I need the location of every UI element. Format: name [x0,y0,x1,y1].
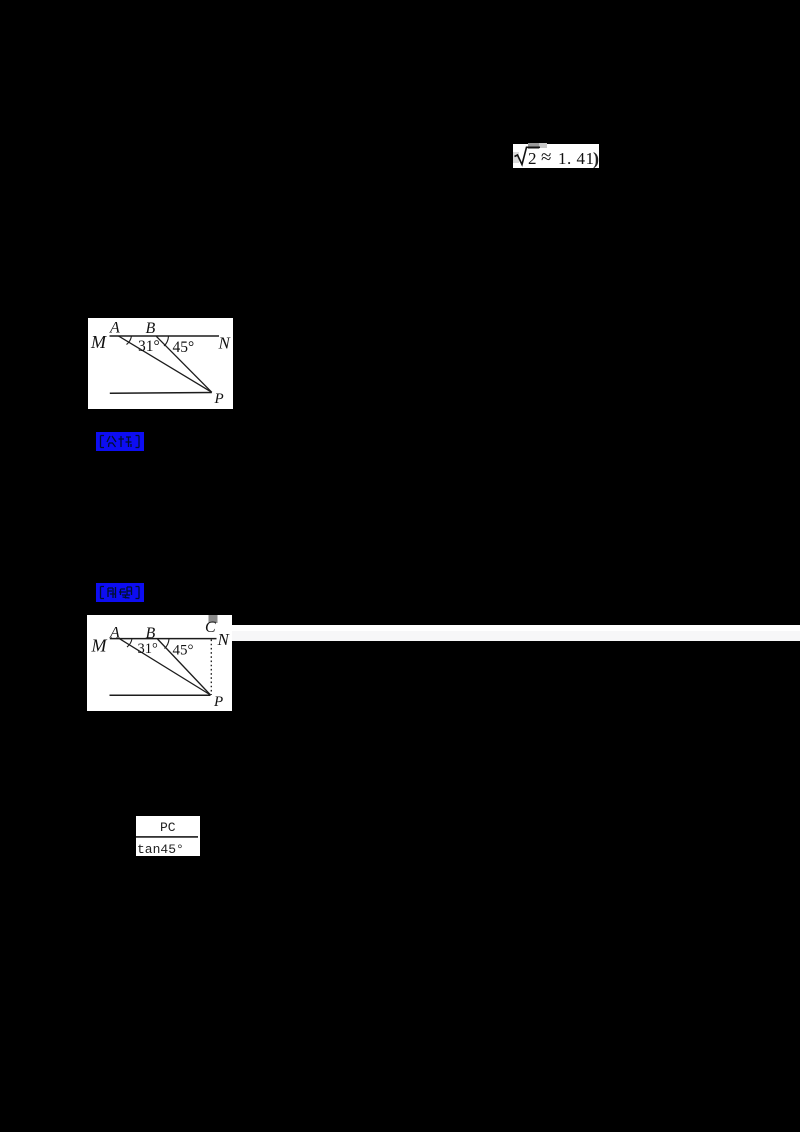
svg-text:M: M [91,636,108,656]
fraction PC / tan45deg [136,816,200,856]
svg-text:31°: 31° [138,641,159,657]
svg-text:2: 2 [528,149,537,168]
svg-text:M: M [90,332,107,352]
radical sign [515,147,541,164]
blue label chip 2 [96,583,144,602]
ray A to P [120,639,211,695]
diagram 2 box [87,615,232,711]
fraction bar [136,836,198,838]
arc at B [164,336,169,346]
blue label chip 1 [96,432,144,451]
svg-text:1. 41: 1. 41 [558,149,595,168]
line MN [110,335,220,337]
gray smudge on top edge of formula box [528,143,539,149]
svg-text:P: P [214,391,224,407]
svg-text:≈: ≈ [541,147,551,168]
ray B to P [158,639,211,695]
arc at B [165,639,170,649]
svg-text:45°: 45° [173,339,195,356]
svg-text:31°: 31° [138,338,160,355]
formula text [513,144,605,168]
svg-text:): ) [593,149,599,169]
svg-text:C: C [205,619,216,636]
svg-text:PC: PC [160,820,176,835]
svg-text:A: A [109,625,120,642]
gray smudge above C [209,614,218,623]
bottom line through P [110,694,211,696]
gray left-edge patch [513,152,519,163]
diagram 1 box [88,318,233,409]
bottom line through P [110,392,212,395]
svg-text:N: N [217,630,231,649]
svg-text:P: P [213,694,223,710]
dotted line C to P [210,640,212,696]
svg-text:B: B [146,625,156,642]
svg-text:A: A [109,319,120,336]
svg-text:N: N [218,334,232,353]
ray A to P [119,336,212,392]
white strip extending right from diagram 2 [230,625,800,631]
svg-text:tan45°: tan45° [137,842,184,856]
formula box sqrt(2) approx 1.41 [513,144,599,168]
line MN [110,638,217,640]
ray B to P [156,336,212,392]
arc at A [127,639,132,647]
svg-text:B: B [146,320,156,337]
arc at A [127,336,132,345]
svg-text:45°: 45° [173,642,194,658]
